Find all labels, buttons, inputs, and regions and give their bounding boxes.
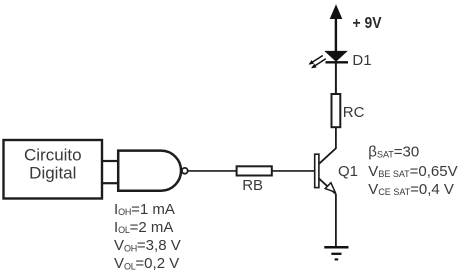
NAND gate — [118, 151, 181, 191]
wire RC to LED — [335, 63, 337, 95]
svg-text:Digital: Digital — [29, 163, 76, 182]
svg-text:Circuito: Circuito — [24, 145, 82, 164]
wire input stub bottom — [102, 182, 118, 184]
svg-text:RB: RB — [242, 177, 263, 194]
svg-text:VOL=0,2 V: VOL=0,2 V — [114, 255, 179, 272]
svg-text:VOH=3,8 V: VOH=3,8 V — [114, 237, 181, 254]
wire RB to base — [272, 170, 315, 172]
wire input stub top — [102, 160, 118, 162]
svg-text:Q1: Q1 — [338, 163, 358, 180]
power +9V supply arrow — [330, 4, 382, 32]
transistor Q1 — [315, 148, 358, 194]
resistor RB — [237, 166, 272, 194]
resistor RC — [332, 94, 365, 127]
output inversion bubble — [182, 168, 188, 174]
svg-text:RC: RC — [343, 104, 365, 121]
wire emitter down to ground — [335, 194, 337, 248]
svg-text:βSAT=30: βSAT=30 — [368, 143, 419, 160]
ground — [324, 247, 348, 259]
wire collector up to RC — [335, 127, 337, 149]
wire gate output to RB — [188, 170, 237, 172]
svg-text:+ 9V: + 9V — [353, 15, 382, 32]
LED D1 — [309, 51, 372, 69]
wire LED to supply arrow — [335, 17, 337, 51]
box Circuito Digital — [4, 140, 103, 199]
svg-text:D1: D1 — [352, 52, 371, 69]
